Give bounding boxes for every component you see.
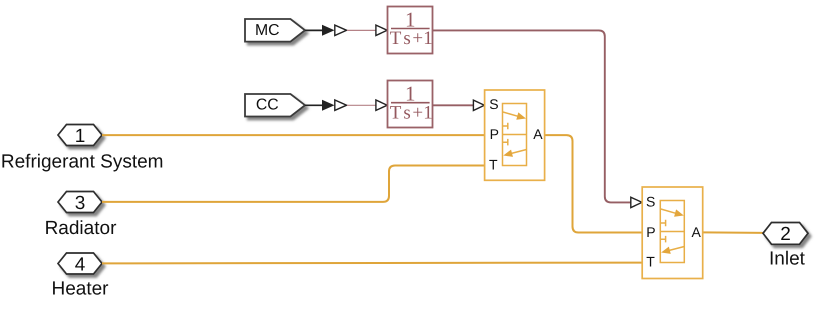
svg-text:+: + — [412, 103, 423, 124]
svg-text:T: T — [390, 28, 402, 49]
goto arrow hollow (CC row) — [335, 100, 347, 110]
transfer fcn block TF2 (1/TS+1) — [388, 81, 433, 128]
icon divider — [660, 231, 684, 233]
svg-text:1: 1 — [75, 126, 86, 147]
inport 4 — [58, 253, 102, 275]
svg-text:S: S — [646, 194, 655, 210]
icon arrow upper — [503, 112, 518, 116]
switch block SW2 — [642, 187, 703, 279]
svg-text:P: P — [490, 126, 499, 142]
icon frame — [503, 104, 527, 166]
goto arrow hollow (MC row) — [335, 25, 347, 35]
svg-text:P: P — [646, 224, 655, 240]
input arrow Switch1 S — [473, 100, 484, 110]
wire CC tag output — [305, 104, 323, 106]
wire TF2 to Switch1 S (maroon) — [433, 104, 474, 106]
wire Switch1 A to Switch2 P — [545, 135, 643, 232]
icon tick upper — [660, 220, 665, 227]
wire inport1 to Switch1 P — [102, 134, 485, 136]
svg-text:MC: MC — [255, 22, 280, 39]
icon tick lower — [660, 236, 665, 243]
goto arrow filled (CC row) — [322, 100, 335, 111]
svg-text:2: 2 — [780, 224, 791, 245]
wire Switch2 A to outport 2 — [703, 231, 763, 234]
icon frame — [660, 201, 684, 263]
from tag MC — [245, 19, 305, 42]
svg-text:Inlet: Inlet — [769, 249, 806, 270]
icon tick upper — [503, 123, 508, 130]
inport 3 — [58, 192, 102, 214]
switch block SW1 — [485, 90, 545, 180]
wire inport3 to Switch1 T — [102, 166, 485, 202]
icon divider — [503, 134, 527, 136]
svg-text:CC: CC — [256, 97, 279, 114]
svg-text:+: + — [412, 28, 423, 49]
svg-text:A: A — [533, 126, 543, 142]
svg-text:s: s — [403, 28, 410, 49]
svg-text:A: A — [692, 224, 702, 240]
svg-text:Radiator: Radiator — [45, 218, 117, 239]
svg-text:1: 1 — [423, 28, 433, 49]
svg-text:S: S — [489, 96, 498, 112]
icon arrow lower — [669, 247, 684, 251]
inport 1 — [58, 125, 102, 147]
svg-text:Heater: Heater — [51, 279, 109, 300]
wire inport4 to Switch2 T — [102, 262, 642, 265]
from tag CC — [245, 94, 305, 117]
goto arrow filled (MC row) — [322, 25, 335, 36]
outport 2 — [763, 223, 808, 246]
svg-text:1: 1 — [423, 103, 433, 124]
input arrow Switch2 S — [631, 197, 642, 207]
svg-text:4: 4 — [75, 254, 86, 275]
svg-text:3: 3 — [75, 193, 86, 214]
wire TF1 to Switch2 S (maroon) — [433, 30, 631, 202]
icon arrow upper — [661, 209, 676, 213]
icon arrow lower — [512, 150, 527, 154]
svg-text:s: s — [403, 103, 410, 124]
input arrow TF2 — [376, 100, 387, 110]
wire MC to TF1 (maroon) — [347, 29, 376, 31]
wire MC tag output — [305, 29, 323, 31]
input arrow TF1 — [376, 25, 387, 35]
svg-text:T: T — [646, 254, 655, 270]
svg-text:T: T — [390, 103, 402, 124]
wire CC to TF2 (maroon) — [347, 104, 376, 106]
svg-text:T: T — [489, 156, 498, 172]
icon tick lower — [503, 139, 508, 146]
transfer fcn block TF1 (1/TS+1) — [388, 7, 433, 54]
svg-text:Refrigerant System: Refrigerant System — [1, 151, 164, 172]
